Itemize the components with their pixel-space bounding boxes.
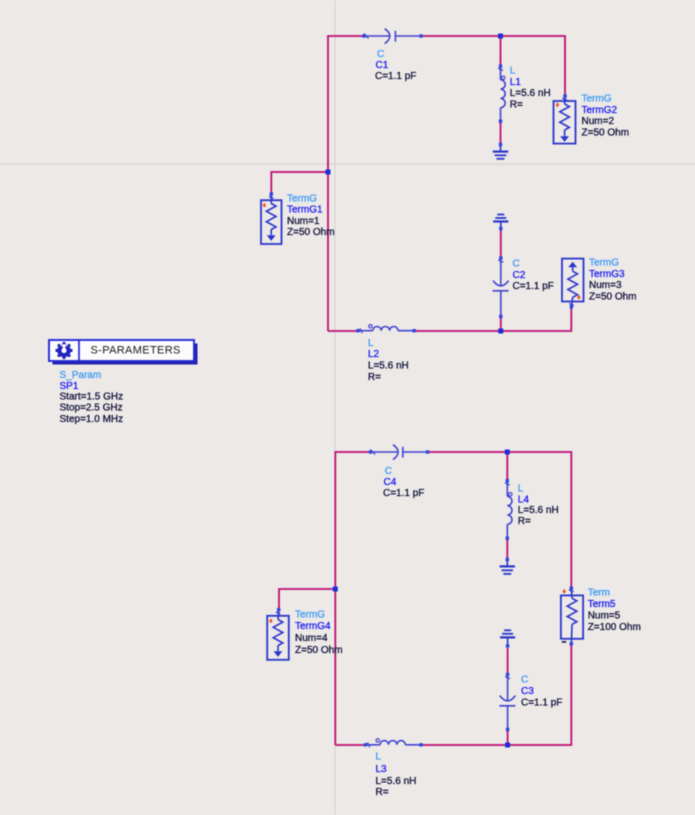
S-Parameters simulation controller SP1	[49, 340, 198, 425]
wire node to L1 top	[500, 36, 502, 66]
svg-text:C=1.1 pF: C=1.1 pF	[513, 281, 554, 292]
svg-text:TermG1: TermG1	[287, 205, 323, 216]
svg-text:Term: Term	[588, 588, 610, 599]
wire bottom rail left segment to L3 left pin	[335, 744, 364, 746]
node junction at TermG4 branch	[333, 587, 338, 592]
svg-text:Z=50 Ohm: Z=50 Ohm	[295, 645, 343, 656]
svg-text:Num=1: Num=1	[287, 216, 320, 227]
svg-text:S-PARAMETERS: S-PARAMETERS	[91, 345, 181, 357]
svg-text:C: C	[521, 675, 528, 686]
inductor L3	[364, 739, 423, 798]
svg-text:L4: L4	[518, 494, 530, 505]
inductor L1	[498, 65, 551, 124]
svg-text:Num=3: Num=3	[589, 280, 622, 291]
svg-text:Num=4: Num=4	[295, 633, 328, 644]
node junction at C1-L1 top rail	[498, 34, 503, 39]
svg-text:Z=50 Ohm: Z=50 Ohm	[589, 291, 637, 302]
wire branch to TermG1	[271, 172, 328, 194]
capacitor C3	[499, 673, 562, 731]
svg-text:Stop=2.5 GHz: Stop=2.5 GHz	[60, 403, 123, 414]
wire Term5 bottom down and left along bottom rail to L3	[422, 644, 572, 745]
svg-text:C4: C4	[384, 477, 397, 488]
port TermG4	[267, 608, 342, 660]
svg-text:TermG: TermG	[582, 94, 612, 105]
svg-text:Z=50 Ohm: Z=50 Ohm	[582, 127, 630, 138]
wire middle bottom rail left segment to L2	[328, 330, 357, 332]
inductor L2	[356, 325, 416, 383]
svg-text:C: C	[513, 259, 520, 270]
wire C2 bottom to junction	[500, 317, 502, 332]
port TermG1	[261, 192, 335, 244]
node junction at C2-L2 bottom rail	[498, 329, 503, 334]
node junction at TermG1 branch	[326, 170, 331, 175]
wire flipped ground to C2 top	[500, 229, 502, 259]
capacitor C2	[493, 256, 554, 318]
svg-text:L=5.6 nH: L=5.6 nH	[518, 505, 559, 516]
svg-text:Z=100 Ohm: Z=100 Ohm	[588, 622, 641, 633]
svg-text:TermG4: TermG4	[295, 621, 331, 632]
port TermG2	[554, 94, 630, 144]
inductor L4	[505, 479, 559, 540]
svg-text:C=1.1 pF: C=1.1 pF	[375, 71, 416, 82]
svg-text:Step=1.0 MHz: Step=1.0 MHz	[60, 414, 124, 425]
wire L2 right pin along bottom rail up to TermG3	[415, 308, 572, 332]
wire L4 bottom to ground	[506, 539, 508, 560]
svg-text:Term5: Term5	[588, 599, 616, 610]
wire node to L4 top	[506, 452, 508, 481]
svg-text:R=: R=	[510, 99, 523, 110]
svg-text:Start=1.5 GHz: Start=1.5 GHz	[60, 391, 124, 402]
ground (flipped, above C2)	[493, 215, 508, 231]
node junction at C3-L3 bottom rail	[505, 743, 510, 748]
svg-text:R=: R=	[376, 787, 389, 798]
svg-text:L=5.6 nH: L=5.6 nH	[376, 776, 417, 787]
svg-text:C: C	[385, 466, 392, 477]
svg-text:L: L	[368, 338, 374, 349]
node junction at C4-L4 top rail	[505, 450, 510, 455]
svg-text:C=1.1 pF: C=1.1 pF	[521, 698, 562, 709]
wire C3 bottom to bottom rail junction	[507, 730, 509, 745]
svg-text:L=5.6 nH: L=5.6 nH	[368, 361, 409, 372]
svg-text:C: C	[377, 49, 384, 60]
svg-text:TermG: TermG	[287, 193, 317, 204]
wire top-left rail from C1 left pin to left vertical rail down to middle bottom rail	[328, 36, 364, 331]
svg-text:L: L	[376, 752, 382, 763]
wire from C1 right pin to top-right corner down to TermG2	[421, 36, 565, 96]
svg-text:C2: C2	[513, 270, 526, 281]
capacitor C1	[362, 29, 422, 82]
svg-text:L: L	[510, 66, 516, 77]
svg-text:Z=50 Ohm: Z=50 Ohm	[287, 227, 335, 238]
svg-text:C=1.1 pF: C=1.1 pF	[383, 488, 424, 499]
svg-text:TermG2: TermG2	[582, 105, 618, 116]
port Term5	[561, 587, 641, 646]
svg-text:Num=5: Num=5	[588, 611, 621, 622]
ground (below L4)	[500, 558, 515, 574]
svg-text:S_Param: S_Param	[60, 370, 102, 381]
svg-text:L3: L3	[376, 764, 388, 775]
capacitor C4	[369, 445, 429, 500]
svg-text:L=5.6 nH: L=5.6 nH	[510, 88, 551, 99]
ground (flipped, above C3)	[500, 630, 515, 647]
ground (below L1)	[493, 143, 509, 159]
svg-text:L1: L1	[510, 77, 522, 88]
wire L1 bottom to ground	[500, 122, 502, 145]
svg-text:R=: R=	[368, 372, 381, 383]
svg-text:TermG3: TermG3	[589, 269, 625, 280]
svg-text:L: L	[518, 484, 524, 495]
gear icon	[56, 342, 73, 359]
svg-text:Num=2: Num=2	[582, 116, 615, 127]
svg-text:C3: C3	[521, 686, 534, 697]
port TermG3 (rotated 180)	[562, 258, 637, 309]
svg-text:TermG: TermG	[589, 258, 619, 269]
wire flipped ground to C3 top	[507, 648, 509, 674]
svg-text:L2: L2	[368, 349, 380, 360]
svg-text:TermG: TermG	[295, 609, 325, 620]
wire bottom circuit: C4 left pin to top-left corner down left rail	[335, 452, 370, 745]
wire C4 right pin to top-right corner down to Term5	[428, 452, 572, 588]
wire branch to TermG4	[279, 589, 335, 610]
svg-text:C1: C1	[376, 60, 389, 71]
svg-text:R=: R=	[518, 516, 531, 527]
